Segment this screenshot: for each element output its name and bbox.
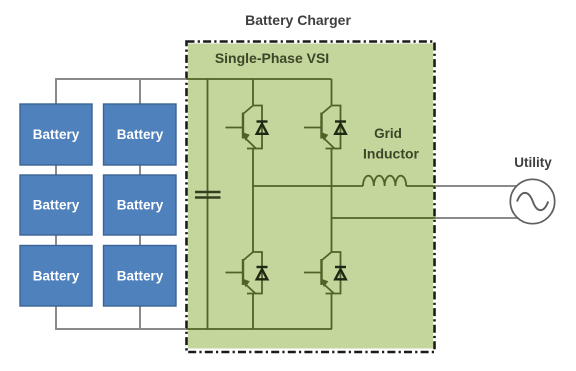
label: Grid Inductor [363,126,420,162]
wire: series link column2 row2-row3 [139,235,141,246]
svg-text:Single-Phase VSI: Single-Phase VSI [215,50,329,66]
IGBT Q4 (bottom-right) [304,252,341,294]
battery B2 (row1 col2) [104,104,177,165]
label: Single-Phase VSI [215,50,329,66]
wire: top bus drop to battery column 2 [139,79,141,104]
battery B3 (row2 col1) [20,175,92,235]
svg-text:Battery: Battery [117,127,164,142]
wire: bottom bus rise from battery column 2 [139,306,141,329]
diode D4 (antiparallel, bottom-right) [335,267,346,279]
svg-text:Utility: Utility [514,155,552,170]
IGBT Q1 (top-left) [226,106,263,149]
wire: AC phase B outside box to utility [435,217,518,219]
capacitor C1 plates [195,192,221,198]
wire: AC phase A from left leg midpoint to inductor [253,185,363,187]
wire: series link column2 row1-row2 [139,165,141,175]
diode D2 (antiparallel, top-right) [335,122,346,134]
wire: top DC bus (outside box, gray) [56,79,186,104]
svg-text:Battery: Battery [33,269,80,284]
svg-text:Battery: Battery [33,198,80,213]
wire: left leg rail [252,79,254,329]
battery B5 (row3 col1) [20,246,92,307]
capacitor C1 branch wire [207,79,209,329]
wire: AC phase B from right leg midpoint to box edge [332,217,436,219]
battery B6 (row3 col2) [104,246,177,307]
AC source: utility circle [510,179,554,223]
VSI enclosure (green dash-dot box) [187,42,435,353]
wire: AC phase A outside box to utility [435,185,517,187]
svg-text:Battery: Battery [33,127,80,142]
label: Battery Charger [245,12,351,28]
wire: series link column1 row2-row3 [55,235,57,246]
wire: bottom DC bus inside VSI [186,328,332,330]
wire: AC phase A inductor to box edge [406,185,435,187]
wire: right leg rail [331,79,333,329]
AC source sine wave [517,193,548,210]
svg-text:Inductor: Inductor [363,146,420,162]
wire: bottom DC bus (outside box, gray) [56,306,186,329]
svg-text:Grid: Grid [374,126,402,141]
wire: series link column1 row1-row2 [55,165,57,175]
IGBT Q2 (top-right) [304,106,341,149]
inductor L1 (grid inductor) [363,176,406,186]
diode D1 (antiparallel, top-left) [257,122,268,134]
svg-text:Battery: Battery [117,269,164,284]
wire: top DC bus inside VSI [186,78,332,80]
battery B1 (row1 col1) [20,104,92,165]
IGBT Q3 (bottom-left) [226,252,263,294]
svg-text:Battery: Battery [117,198,164,213]
battery B4 (row2 col2) [104,175,177,235]
diode D3 (antiparallel, bottom-left) [257,267,268,279]
svg-text:Battery Charger: Battery Charger [245,12,351,28]
